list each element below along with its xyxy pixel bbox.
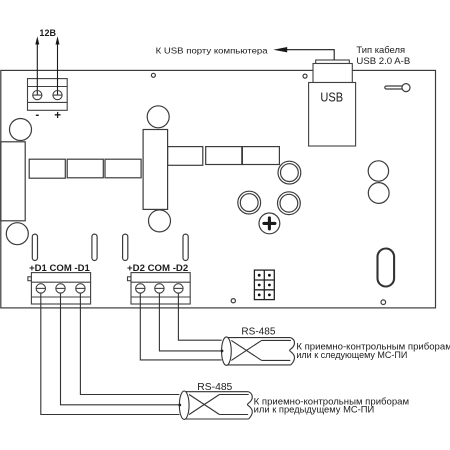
svg-text:+D2 COM -D2: +D2 COM -D2 bbox=[127, 263, 188, 273]
svg-text:+: + bbox=[54, 110, 61, 122]
svg-text:USB: USB bbox=[320, 91, 343, 105]
svg-text:или к следующему МС-ПИ: или к следующему МС-ПИ bbox=[296, 350, 407, 360]
svg-text:Тип кабеля: Тип кабеля bbox=[356, 45, 405, 55]
svg-text:USB 2.0 A-B: USB 2.0 A-B bbox=[356, 56, 410, 66]
svg-text:12В: 12В bbox=[39, 28, 56, 38]
svg-text:К USB порту компьютера: К USB порту компьютера bbox=[156, 45, 268, 55]
svg-text:-: - bbox=[35, 109, 39, 121]
svg-text:RS-485: RS-485 bbox=[241, 327, 275, 338]
svg-text:RS-485: RS-485 bbox=[197, 382, 232, 393]
svg-text:+D1 COM -D1: +D1 COM -D1 bbox=[29, 263, 90, 273]
svg-text:или к предыдущему МС-ПИ: или к предыдущему МС-ПИ bbox=[254, 405, 375, 415]
